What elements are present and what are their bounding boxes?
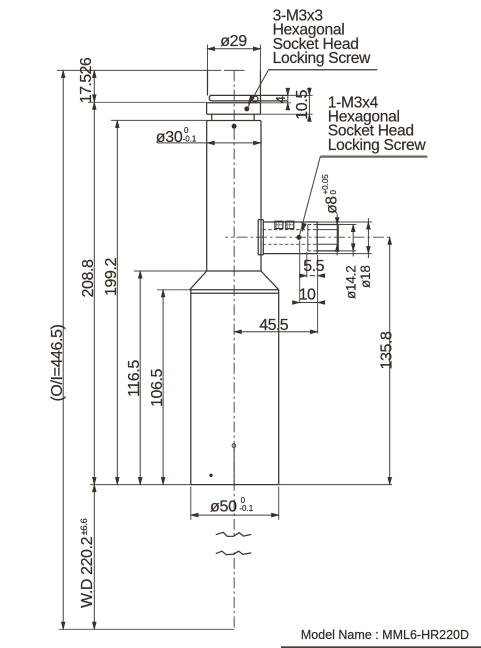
svg-text:ø30: ø30: [156, 129, 183, 146]
screw end cap: [252, 96, 258, 102]
reference plane: [90, 484, 191, 486]
dim ø30: [157, 142, 261, 144]
svg-text:0: 0: [329, 190, 338, 195]
screw dot port: [297, 235, 301, 239]
dim ø50: [190, 487, 192, 520]
dim W.D 220.2: [92, 485, 96, 492]
dim 17.526: [93, 70, 95, 629]
svg-text:Locking Screw: Locking Screw: [273, 50, 372, 67]
dim 135.8: [389, 237, 391, 484]
port collar: [257, 220, 259, 255]
dim ø14.2: [352, 225, 354, 257]
svg-text:Locking Screw: Locking Screw: [328, 137, 427, 154]
screw slot bar: [210, 94, 288, 96]
stub ø14.2: [308, 224, 317, 226]
hidden hole ø8: [263, 229, 318, 231]
dim 106.5: [162, 290, 164, 485]
svg-text:-0.1: -0.1: [239, 504, 253, 513]
svg-text:17.526: 17.526: [78, 57, 95, 103]
barrel ø29: [207, 45, 209, 71]
screw dot body: [232, 124, 236, 128]
svg-text:199.2: 199.2: [103, 257, 120, 296]
dim 45.5: [234, 331, 317, 333]
center axis: [233, 70, 235, 629]
clamp ring: [207, 102, 261, 104]
svg-text:116.5: 116.5: [126, 360, 143, 397]
svg-text:ø14.2: ø14.2: [344, 265, 359, 299]
body ø50: [157, 289, 191, 291]
svg-text:45.5: 45.5: [259, 317, 288, 334]
dims 4 / 10.5: [288, 94, 313, 96]
port centerline: [225, 236, 392, 238]
svg-text:ø18: ø18: [358, 265, 373, 288]
dim ø8: [336, 214, 338, 256]
svg-text:ø29: ø29: [220, 33, 247, 50]
svg-text:ø50: ø50: [210, 498, 237, 515]
break waves: [231, 539, 238, 551]
dim 199.2: [111, 119, 207, 121]
svg-text:5.5: 5.5: [303, 258, 324, 275]
svg-text:135.8: 135.8: [378, 331, 395, 370]
port barrel ø18: [263, 221, 317, 223]
svg-text:106.5: 106.5: [149, 368, 166, 407]
svg-text:208.8: 208.8: [80, 259, 97, 298]
svg-text:ø8: ø8: [324, 196, 341, 214]
dim 208.8: [88, 101, 207, 103]
svg-text:(O/I=446.5): (O/I=446.5): [49, 324, 66, 401]
svg-text:-0.1: -0.1: [183, 135, 197, 144]
body ø30: [207, 120, 261, 122]
dim 116.5: [139, 271, 141, 485]
svg-text:10: 10: [299, 287, 316, 304]
dim ø18: [367, 218, 369, 258]
neck: [211, 114, 213, 120]
dims 5.5 / 10: [299, 241, 301, 304]
svg-text:10.5: 10.5: [294, 89, 311, 119]
svg-text:4: 4: [273, 96, 288, 103]
svg-text:Model Name : MML6-HR220D: Model Name : MML6-HR220D: [301, 628, 469, 642]
screw dot clamp ring: [245, 107, 249, 111]
image plane line top: [57, 69, 221, 71]
bottom reference: [59, 628, 234, 630]
port screws squares: [275, 221, 283, 228]
dim ø29: [208, 48, 261, 50]
cone: [134, 270, 207, 272]
dim O/I=446.5: [62, 70, 64, 629]
